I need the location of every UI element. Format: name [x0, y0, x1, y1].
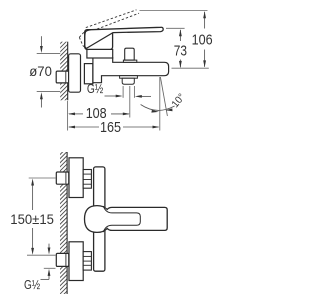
lower escutcheon — [69, 242, 83, 281]
diverter knob base — [123, 60, 136, 62]
mixer body + spout (side view) — [93, 58, 169, 83]
handle cap (solid) — [85, 30, 113, 50]
lever top-surface inner outline — [103, 206, 140, 232]
shower outlet tube G1/2 — [122, 78, 134, 84]
svg-text:73: 73 — [174, 44, 187, 60]
wall surface extension line (bottom of top view) — [67, 101, 69, 131]
small dimension arrows at lower stub (G1/2) — [48, 244, 50, 249]
lever handle (solid, horizontal) — [85, 27, 163, 48]
dimension 106 — [192, 11, 213, 67]
wall (side view, hatched band) — [60, 42, 68, 101]
svg-text:ø70: ø70 — [29, 64, 52, 80]
shower outlet flange (under body) — [120, 76, 138, 79]
leader G1/2 to arrow — [41, 278, 50, 280]
cartridge dome circle + lever (front view) — [85, 206, 168, 233]
dimension 108 — [68, 106, 130, 122]
extension line lower stub bottom — [44, 267, 56, 269]
extension line from raised lever tip — [140, 10, 208, 12]
leader G1/2 with arrow — [105, 95, 117, 97]
handle cap raised position (dashed outline fragments) — [79, 30, 89, 50]
union nut (side view) — [84, 64, 93, 84]
upper escutcheon — [69, 158, 83, 198]
water stream vertical reference / 165 extension line — [159, 77, 161, 131]
extension line from lever top — [166, 27, 185, 29]
svg-text:165: 165 — [100, 120, 121, 136]
dimension 150±15 — [10, 179, 54, 255]
upper union nut — [83, 170, 91, 189]
dimension 165 — [68, 120, 160, 136]
outlet edge extension lines — [122, 86, 124, 98]
lower union nut — [83, 252, 91, 271]
wall (front view, hatched band) — [60, 152, 67, 294]
svg-text:G½: G½ — [87, 81, 104, 96]
extension line at spout outlet level — [172, 67, 209, 69]
dimension 73 — [174, 29, 187, 68]
upper supply stub — [56, 172, 69, 184]
lever raised position (dashed line 1) — [86, 10, 137, 28]
dimension ø70 arrows — [40, 36, 42, 46]
water stream direction line (10 deg) — [160, 77, 167, 116]
svg-text:106: 106 — [192, 32, 213, 48]
svg-text:150±15: 150±15 — [10, 212, 54, 228]
extension line lower connection centerline — [27, 254, 56, 256]
lower supply stub — [56, 253, 69, 266]
lever raised position (dashed line 2) — [89, 13, 139, 32]
dimension ø70 extension lines — [37, 53, 61, 55]
supply pipe stub (in wall, side view) — [56, 71, 69, 83]
cartridge collar (side view) — [87, 49, 113, 58]
extension line upper connection centerline — [29, 177, 56, 179]
angle arc 10 deg — [141, 105, 175, 111]
mixer body column (front view) — [94, 167, 105, 271]
wall escutcheon ø70 (side view) — [69, 54, 81, 92]
outlet centerline extension — [129, 86, 131, 118]
svg-text:G½: G½ — [24, 277, 40, 292]
diverter knob — [125, 48, 135, 60]
right arrow of outlet width — [140, 95, 151, 97]
